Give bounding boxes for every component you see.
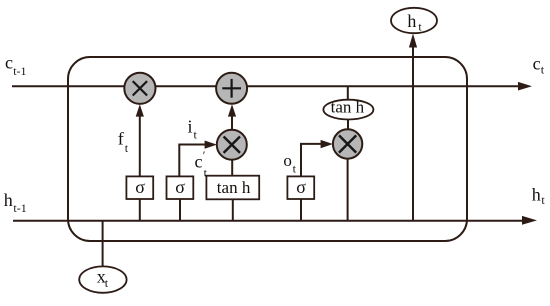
wire x_t vertical [102, 221, 104, 267]
arrow into h_t ellipse [409, 34, 417, 48]
svg-text:σ: σ [296, 177, 306, 197]
wire c line down to tanh ellipse [347, 86, 349, 100]
node tanh ellipse [323, 100, 373, 120]
svg-text:f: f [118, 129, 124, 149]
gate multiply3 [333, 129, 362, 158]
arrow i into multiply2 [205, 141, 217, 149]
arrow c out [518, 82, 532, 91]
wire f from sigma1 up [139, 116, 141, 177]
svg-text:c: c [5, 53, 13, 73]
box sigma1 [126, 176, 153, 199]
svg-text:h: h [532, 184, 541, 204]
gate plus [216, 73, 247, 104]
gate multiply2 [217, 130, 247, 160]
svg-text:σ: σ [175, 177, 185, 197]
svg-text:h: h [407, 11, 416, 31]
wire i elbow from sigma2 [179, 145, 205, 177]
node x_t ellipse [79, 266, 126, 292]
wire sigma1 to h line [139, 199, 141, 221]
svg-text:t-1: t-1 [13, 201, 26, 215]
wire h_t branch vertical [412, 47, 414, 221]
wire sigma3 to h line [300, 199, 302, 221]
wire tanh box up to multiply2 [231, 159, 233, 176]
wire multiply3 to h line [347, 159, 349, 221]
svg-text:i: i [188, 117, 193, 137]
box sigma3 [287, 176, 314, 199]
wire multiply2 up [231, 117, 233, 131]
wire sigma2 to h line [179, 199, 181, 221]
arrow into plus [228, 104, 236, 116]
svg-text:t-1: t-1 [13, 64, 26, 78]
node h_t ellipse [391, 8, 437, 33]
wire tanh ellipse to multiply3 [347, 120, 349, 131]
svg-text:c: c [195, 152, 203, 172]
arrow o into multiply3 [321, 140, 333, 148]
svg-text:c: c [533, 53, 541, 73]
cell body rounded rectangle [68, 57, 467, 241]
wire tanh box to h line [232, 199, 234, 220]
wire c line horizontal [12, 85, 519, 87]
svg-text:h: h [4, 190, 13, 210]
box sigma2 [167, 176, 194, 199]
wire h line horizontal [13, 220, 523, 222]
svg-text:tan h: tan h [217, 178, 251, 197]
svg-text:o: o [283, 151, 292, 170]
gate multiply1 [124, 73, 155, 104]
box tanh [206, 176, 259, 200]
arrow h out [522, 216, 537, 225]
svg-text:tan h: tan h [331, 98, 365, 117]
svg-text:′: ′ [203, 148, 206, 162]
wire o elbow from sigma3 [301, 144, 321, 177]
arrow f into multiply1 [136, 104, 144, 116]
svg-text:σ: σ [135, 177, 145, 197]
